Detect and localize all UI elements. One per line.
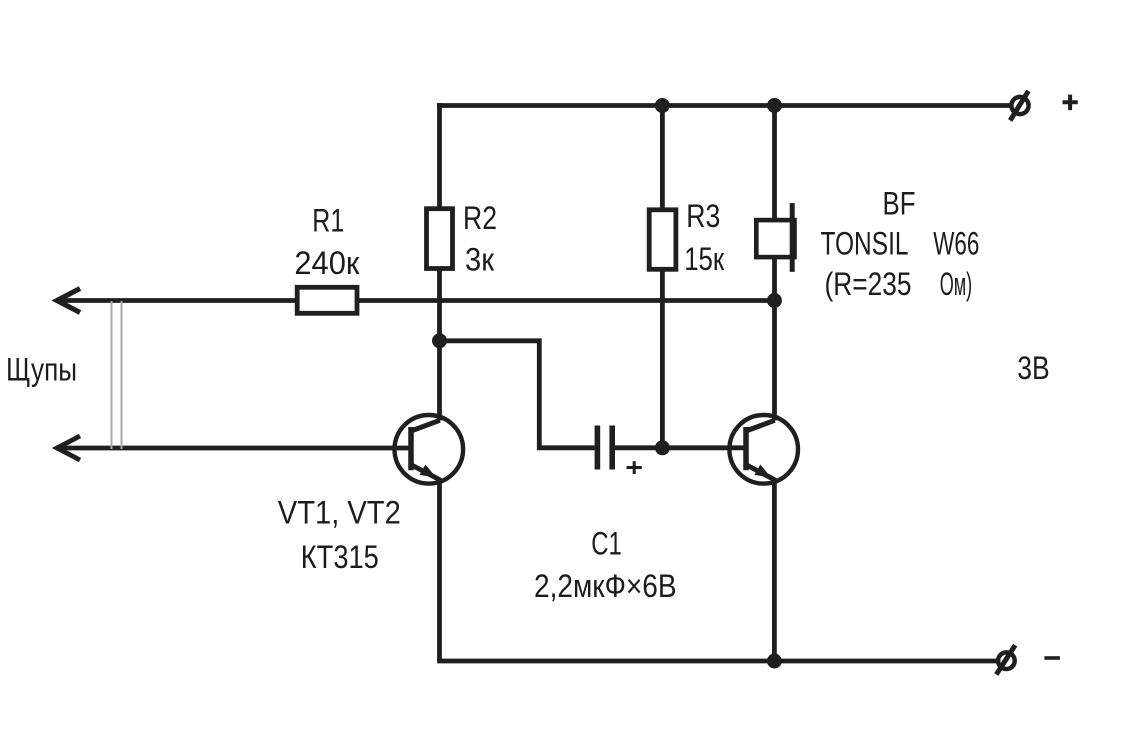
wire R2 drop from rail	[437, 103, 442, 209]
telephone BF diaphragm bar	[790, 203, 795, 272]
wire BF to VT2 collector	[772, 257, 777, 420]
terminal top +	[1011, 97, 1028, 114]
svg-text:15к: 15к	[684, 241, 725, 277]
svg-text:VT1, VT2: VT1, VT2	[278, 495, 401, 531]
capacitor C1 plate right	[609, 426, 615, 470]
transistor VT2 base bar	[743, 427, 749, 470]
node dot rail R3	[655, 98, 670, 113]
wire VT2 emitter down	[772, 478, 777, 661]
node dot rail BF	[767, 98, 782, 113]
resistor R1	[297, 287, 357, 313]
telephone BF box	[756, 220, 794, 257]
svg-text:240к: 240к	[294, 245, 360, 281]
plus label at C1	[627, 461, 642, 474]
wire C1 to VT2 base	[615, 445, 747, 450]
wire top supply rail	[437, 103, 1011, 108]
svg-text:КТ315: КТ315	[301, 539, 379, 575]
svg-text:R3: R3	[686, 198, 720, 234]
svg-text:3к: 3к	[465, 241, 495, 277]
svg-text:R1: R1	[312, 203, 344, 239]
node dot VT2 base / R3 / C1	[655, 440, 670, 455]
svg-text:BF: BF	[883, 186, 916, 222]
transistor VT2 emitter diagonal	[746, 465, 775, 480]
svg-text:W66: W66	[933, 226, 979, 262]
capacitor C1 plate left	[595, 426, 601, 470]
wire VT1 emitter down	[437, 478, 442, 661]
transistor VT1 circle	[395, 415, 464, 484]
transistor VT2 emitter arrow	[755, 465, 772, 478]
wire BF drop from rail	[772, 103, 777, 220]
svg-text:R2: R2	[463, 200, 497, 236]
terminal bottom -	[998, 652, 1015, 669]
wire R3 to VT2 base node	[660, 269, 665, 445]
resistor R3	[649, 210, 676, 269]
svg-text:(R=235: (R=235	[825, 266, 912, 302]
probe arrow top	[57, 289, 80, 313]
node dot bottom rail VT2 emitter	[767, 654, 782, 669]
probe arrow bottom	[57, 436, 80, 460]
wire VT1 base probe row	[56, 446, 411, 451]
wire bottom rail	[437, 659, 998, 664]
probe cable gray lines	[112, 301, 122, 449]
minus label bottom right	[1044, 656, 1060, 660]
svg-text:C1: C1	[591, 526, 622, 562]
wire R3 drop from rail	[660, 103, 665, 210]
resistor R2	[427, 209, 453, 269]
transistor VT1 collector diagonal	[411, 420, 440, 431]
svg-text:TONSIL: TONSIL	[821, 226, 909, 262]
svg-text:2,2мкФ×6В: 2,2мкФ×6В	[534, 568, 677, 604]
node dot R1 to BF/collector	[767, 293, 782, 308]
transistor VT2 collector diagonal	[746, 420, 775, 431]
node dot VT1 collector branch	[432, 333, 447, 348]
transistor VT1 base bar	[408, 427, 414, 470]
wire R2 to VT1 collector	[437, 269, 442, 421]
svg-text:3В: 3В	[1017, 350, 1049, 386]
transistor VT1 emitter diagonal	[411, 465, 440, 480]
wire C1 branch from collector node	[440, 341, 595, 448]
transistor VT1 emitter arrow	[420, 465, 437, 478]
transistor VT2 circle	[729, 415, 798, 484]
plus label top right	[1063, 95, 1078, 111]
svg-text:Щупы: Щупы	[6, 352, 77, 388]
wire R1 probe row	[56, 298, 774, 303]
svg-text:Ом): Ом)	[940, 266, 973, 302]
